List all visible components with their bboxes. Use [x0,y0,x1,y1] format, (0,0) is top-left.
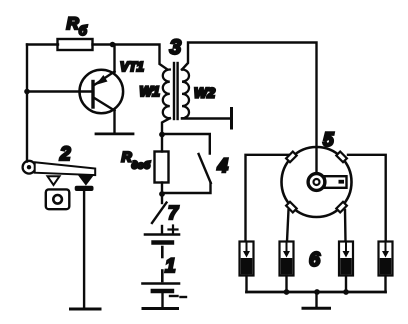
wire switch 7 to battery [161,226,163,234]
transformer winding W1 [163,70,170,119]
battery minus sign [170,296,186,297]
wire Rдоб top lead [161,135,163,152]
wire battery to ground [161,293,163,307]
svg-text:4: 4 [217,156,229,177]
wire distributor to plug 4 [348,155,386,241]
spark plug P1 [240,242,254,276]
transformer core [174,63,178,119]
breaker moving contact triangle [48,176,60,185]
wire to switch 4 top [162,134,210,154]
node junction base/left rail [24,89,30,95]
svg-text:W1: W1 [140,84,160,99]
svg-text:7: 7 [168,203,179,223]
wire plug 4 bottom lead [384,276,386,293]
node junction bus ground [314,289,320,295]
wire bus to ground [315,292,317,307]
wire plug common bus [247,291,386,294]
rotor center [314,179,320,185]
breaker fixed contact bar [75,186,94,191]
cam circle [53,195,62,204]
node junction bus plug2 [284,289,290,295]
wire breaker stand to ground [83,191,85,308]
node junction W1 bottom [159,132,165,138]
svg-text:5: 5 [323,130,334,151]
svg-text:W2: W2 [194,85,215,101]
wire plug 2 bottom lead [285,276,287,293]
ground chassis bar battery [143,307,178,310]
resistor Rб [58,39,93,50]
transformer winding W2 [182,70,189,119]
spark plug P2 [280,242,294,276]
node junction bus plug3 [343,289,349,295]
breaker fixed contact triangle [80,176,92,184]
wire top rail left segment [27,43,58,45]
wire left rail [26,45,28,162]
spark plug P3 [339,242,353,276]
distributor 5 [282,147,352,217]
ground chassis bar W2 [230,109,233,129]
breaker pivot [23,161,36,174]
ground chassis bar under transistor [96,132,133,135]
wire plug 1 bottom lead [245,276,247,293]
svg-text:VT1: VT1 [120,59,144,74]
spark plug P4 [379,242,393,276]
ground chassis bar plugs [303,307,330,310]
wire W2 bottom to chassis [182,117,231,119]
switch 4 blade [199,154,211,183]
wire collector lead [113,111,115,133]
distributor rotor arm [325,176,347,188]
battery 1 [143,235,180,292]
wire top rail right segment to W1 [93,45,168,70]
svg-text:2: 2 [59,144,71,165]
node junction top rail [110,42,116,48]
wire base lead [27,90,92,92]
node junction below Rдоб [159,191,165,197]
transistor VT1 [80,70,124,114]
svg-text:1: 1 [165,256,176,277]
wire emitter lead [113,45,115,73]
wire switch 4 bottom return [162,183,211,193]
svg-text:3: 3 [170,36,182,59]
svg-text:6: 6 [309,249,321,271]
wire Rдоб bottom lead [161,183,163,204]
wire distributor to plug 3 [344,210,347,242]
breaker lever arm [35,162,95,175]
rotor arm notch [339,180,345,184]
wire W1 bottom lead [162,118,170,134]
rotor ring [308,174,325,191]
switch 7 blade [152,203,167,224]
ground chassis bar breaker [71,308,101,311]
svg-text:Rб: Rб [67,14,88,38]
battery plus sign [169,226,178,234]
wire distributor to plug 1 [246,155,289,241]
wire plug 3 bottom lead [345,276,347,293]
resistor Rдоб [155,152,169,183]
svg-text:Rдоб: Rдоб [122,149,151,172]
wire distributor to plug 2 [287,210,289,242]
cam square [46,189,70,209]
wire W2 top to distributor [182,43,317,174]
